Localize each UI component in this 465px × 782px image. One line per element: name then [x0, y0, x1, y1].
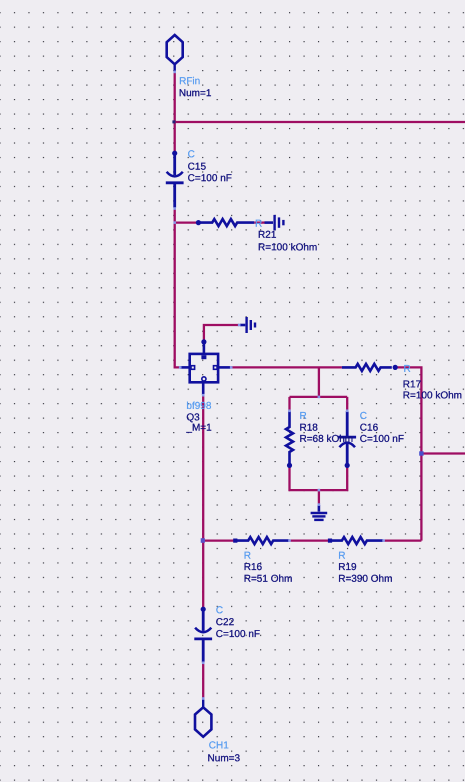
svg-text:R17: R17	[403, 379, 422, 390]
svg-text:C22: C22	[216, 617, 235, 628]
svg-text:C: C	[360, 411, 367, 422]
svg-text:R: R	[244, 551, 251, 562]
svg-text:R: R	[255, 219, 262, 230]
svg-text:C15: C15	[188, 162, 207, 173]
svg-text:R=51 Ohm: R=51 Ohm	[244, 574, 293, 585]
svg-text:R21: R21	[258, 230, 277, 241]
svg-text:R=100 kOhm: R=100 kOhm	[258, 242, 317, 253]
svg-text:R: R	[338, 551, 345, 562]
svg-text:C=100 nF: C=100 nF	[360, 434, 404, 445]
svg-text:R=390 Ohm: R=390 Ohm	[338, 574, 392, 585]
svg-text:bf998: bf998	[186, 401, 211, 412]
svg-text:R19: R19	[338, 562, 357, 573]
svg-text:R16: R16	[244, 562, 263, 573]
svg-text:CH1: CH1	[209, 740, 229, 751]
svg-text:R=68 kOhm: R=68 kOhm	[299, 434, 353, 445]
svg-text:RFin: RFin	[179, 76, 200, 87]
svg-text:Num=3: Num=3	[208, 753, 241, 764]
svg-text:R=100 kOhm: R=100 kOhm	[403, 390, 462, 401]
svg-text:R: R	[299, 411, 306, 422]
svg-text:C16: C16	[360, 423, 379, 434]
svg-text:C: C	[216, 605, 223, 616]
svg-text:C: C	[188, 149, 195, 160]
svg-text:Num=1: Num=1	[179, 88, 212, 99]
svg-text:C=100 nF: C=100 nF	[216, 629, 260, 640]
svg-text:R18: R18	[299, 423, 318, 434]
svg-text:_M=1: _M=1	[185, 423, 212, 434]
svg-text:C=100 nF: C=100 nF	[188, 173, 232, 184]
svg-text:R: R	[404, 364, 411, 375]
